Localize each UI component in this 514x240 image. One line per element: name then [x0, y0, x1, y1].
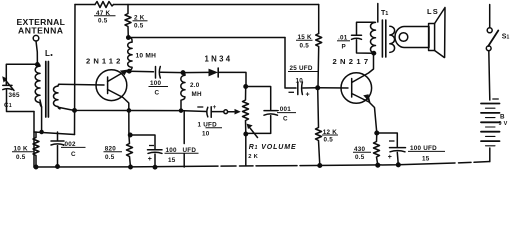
switch S contact bottom — [486, 46, 491, 51]
wire mid rail y=37.5 — [128, 37, 285, 39]
wire node A to 100pF — [129, 70, 153, 73]
wire bottom rail — [34, 165, 218, 168]
resistor 2K vertical — [125, 5, 131, 38]
transformer T1 primary winding — [371, 22, 376, 53]
node 820 bottom rail — [129, 165, 132, 168]
svg-text:1N34: 1N34 — [205, 55, 233, 64]
node L1 bottom junction — [40, 131, 43, 134]
loudspeaker LS cone flare — [435, 8, 445, 58]
wire secondary top to Q1 base — [59, 83, 104, 86]
svg-text:P: P — [342, 44, 346, 51]
wire 100pF to diode node — [161, 71, 184, 73]
svg-text:C: C — [283, 116, 288, 123]
node 2K bottom / rail2 — [127, 36, 130, 39]
capacitor 100pF plates — [156, 67, 161, 79]
transistor Q2 upper lead (collector) — [352, 53, 374, 83]
wire top rail corner down — [318, 5, 320, 34]
svg-text:.001: .001 — [278, 106, 292, 113]
wire 25UFD to base node — [303, 87, 318, 89]
svg-text:0.5: 0.5 — [355, 154, 365, 161]
battery minus tick — [493, 98, 499, 100]
svg-text:0.5: 0.5 — [98, 18, 108, 25]
svg-text:B: B — [500, 114, 505, 121]
svg-text:+: + — [213, 104, 217, 111]
transistor Q1 arrow — [120, 70, 128, 76]
coil L1 secondary — [53, 84, 60, 109]
wire secondary bottom / mid net — [59, 107, 207, 111]
svg-text:0.5: 0.5 — [16, 154, 26, 161]
wire .01 bottom to primary bottom — [357, 40, 375, 53]
wire top rail right segment — [114, 4, 319, 6]
svg-text:15: 15 — [168, 157, 176, 164]
coil L1 primary — [35, 64, 41, 107]
resistor 1.5K vertical — [316, 34, 322, 88]
wire battery bottom to rail — [489, 148, 491, 162]
capacitor 100UFD/15 plates — [390, 148, 406, 152]
svg-text:25 UFD: 25 UFD — [290, 65, 313, 72]
wire bottom-left jog — [34, 132, 75, 135]
wire left border vertical — [74, 5, 77, 135]
svg-text:+: + — [388, 154, 392, 161]
loudspeaker LS throat — [429, 24, 435, 51]
svg-text:S1: S1 — [502, 34, 510, 41]
diode 1N34 — [183, 71, 209, 73]
node 100UFD bottom rail — [397, 163, 401, 167]
svg-text:0.5: 0.5 — [300, 43, 310, 50]
node pot top junction — [244, 85, 247, 88]
wire wiper arrow — [228, 111, 234, 113]
node wiper tie circle — [224, 110, 228, 114]
node mid net / left border junction — [73, 109, 76, 112]
potentiometer R1 wiper diagonal arrow — [250, 128, 258, 138]
resistor 430 vertical — [374, 133, 380, 165]
capacitor C1 arrow — [5, 79, 15, 91]
capacitor 1UFD plates — [207, 107, 211, 118]
inductor 2.0MH choke — [181, 73, 185, 111]
svg-text:365: 365 — [9, 92, 21, 99]
wire 100/15 bottom — [154, 154, 156, 167]
svg-text:100: 100 — [150, 80, 162, 87]
capacitor .002 plates — [51, 141, 64, 145]
svg-text:9 V: 9 V — [499, 121, 508, 127]
capacitor 25UFD plates — [298, 82, 303, 95]
wire C1 top lead — [6, 64, 37, 85]
svg-text:2N112: 2N112 — [86, 57, 123, 66]
battery B 9V cells — [481, 104, 500, 146]
node T1 primary bottom junction — [372, 52, 375, 55]
transistor Q1 lower lead — [108, 90, 129, 136]
wire Q2 base lead — [318, 87, 348, 89]
svg-text:+: + — [306, 92, 310, 99]
node 2.0MH bottom — [180, 109, 183, 112]
switch S lever — [488, 31, 498, 47]
wire T1 primary top stub — [377, 4, 379, 23]
node .002 bottom rail — [56, 165, 59, 168]
svg-text:2.0: 2.0 — [190, 82, 200, 89]
capacitor .001 plates — [264, 111, 278, 116]
svg-text:0.5: 0.5 — [324, 137, 334, 144]
wire ground drop x=184 — [183, 111, 185, 144]
transistor Q1 2N112: circle — [96, 70, 127, 101]
node antenna/L1/C1 junction — [36, 63, 39, 66]
wire L1 primary bottom lead — [40, 100, 42, 132]
wire 820 node to 100/15 cap — [130, 135, 155, 149]
wire .001 bottom to pot bottom — [246, 116, 271, 134]
transistor Q1 base bar — [107, 77, 109, 94]
svg-text:10: 10 — [202, 131, 210, 138]
node Q1 emitter / mid net crossing — [127, 109, 130, 112]
switch S wire top — [489, 5, 491, 28]
svg-text:2 K: 2 K — [248, 154, 258, 160]
transistor Q1 upper lead — [108, 71, 130, 82]
wire 1UFD to wiper circle — [212, 111, 224, 113]
node 100/15 bottom rail — [153, 166, 156, 169]
node 820 top junction — [129, 133, 132, 136]
node 12K bottom rail — [318, 164, 322, 168]
svg-text:L: L — [45, 49, 50, 58]
svg-text:2N217: 2N217 — [333, 57, 372, 66]
wire switch to battery — [489, 51, 490, 100]
label minus plus 100/15 — [149, 145, 154, 147]
wire C1 bottom lead — [7, 90, 35, 112]
svg-text:R1 VOLUME: R1 VOLUME — [249, 144, 297, 151]
capacitor .01 P plates — [352, 35, 362, 39]
wire left ground drop (x=34) — [33, 112, 35, 168]
inductor 10MH choke — [128, 38, 132, 72]
resistor 10K vertical — [33, 132, 39, 167]
node Q2 base node — [316, 86, 320, 90]
wire to .001 top — [246, 87, 271, 111]
svg-text:MH: MH — [192, 91, 202, 98]
svg-text:15: 15 — [422, 156, 430, 163]
transistor Q2 2N217 circle — [341, 73, 372, 104]
core L1 — [46, 62, 49, 118]
wire antenna lead-in — [36, 41, 37, 65]
svg-text:0.5: 0.5 — [105, 154, 115, 161]
svg-text:LS: LS — [427, 7, 439, 16]
resistor 47K (in top rail) — [95, 2, 114, 8]
transistor Q2 lower lead (emitter) — [352, 94, 377, 134]
label minus plus 1UFD — [197, 106, 203, 108]
node 10K bottom rail — [34, 165, 37, 168]
svg-text:0.5: 0.5 — [134, 22, 144, 29]
switch S contact top — [487, 28, 492, 33]
svg-text:T1: T1 — [381, 10, 388, 17]
transistor Q2 base bar — [351, 79, 353, 98]
loudspeaker LS coil dome — [399, 33, 408, 42]
wire T1 primary loop top — [357, 22, 375, 35]
transformer T1 secondary winding — [390, 26, 395, 52]
wire 100UFD bottom to rail — [397, 152, 398, 164]
label minus plus 100UFD — [389, 140, 395, 142]
resistor 820 vertical — [127, 135, 133, 167]
node detector node A — [128, 70, 131, 73]
transformer T1 core — [382, 20, 385, 57]
capacitor 100/15 plates — [148, 150, 163, 154]
loudspeaker LS body — [395, 27, 429, 48]
node emitter node — [375, 131, 379, 135]
svg-text:C1: C1 — [4, 102, 12, 109]
wire emitter to 100UFD — [377, 133, 398, 147]
label minus plus 25UFD — [289, 91, 295, 93]
node 430 bottom rail — [376, 163, 380, 167]
svg-text:C: C — [71, 151, 76, 158]
capacitor C1 365 variable: plates — [3, 85, 12, 89]
wire 25UFD feed from mid rail — [285, 38, 296, 89]
transistor Q2 emitter arrow — [363, 94, 370, 103]
svg-text:+: + — [148, 156, 152, 163]
resistor 12K vertical — [316, 88, 322, 166]
wire .002 leads — [57, 132, 59, 141]
wire top rail left segment — [75, 4, 95, 6]
antenna terminal — [33, 35, 39, 41]
wire pot bottom to rail — [245, 134, 247, 166]
node diode node B — [181, 71, 184, 74]
svg-text:UFD: UFD — [183, 147, 197, 154]
potentiometer R1 2K zigzag — [243, 87, 249, 135]
node pot bottom junction — [244, 132, 247, 135]
svg-text:10 MH: 10 MH — [136, 53, 157, 60]
svg-text:C: C — [155, 90, 160, 97]
svg-text:ANTENNA: ANTENNA — [18, 26, 64, 36]
svg-text:10: 10 — [296, 78, 304, 85]
